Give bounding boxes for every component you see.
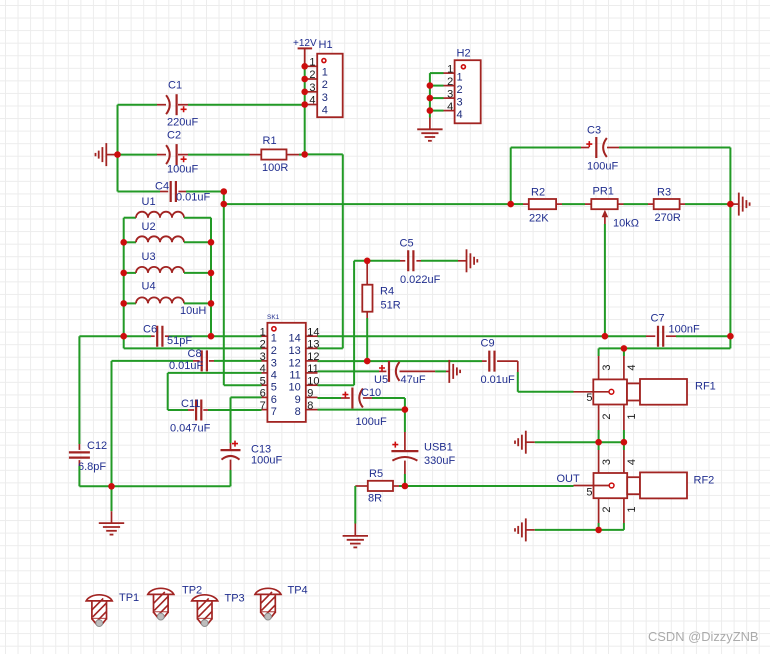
svg-text:5: 5 [271,382,277,394]
node U2 right [208,239,215,246]
wire C5 corner to SK1 pin10 [318,261,355,385]
SK1 left pin stubs [262,336,268,409]
svg-text:H2: H2 [457,48,471,60]
svg-text:TP4: TP4 [288,585,308,597]
wire C5 row [354,260,466,262]
H2 pin numbers [447,63,463,121]
power symbol +12V [293,38,317,66]
capacitor C9 0.01uF [481,338,516,387]
node RF row right junction [621,439,628,446]
capacitor C10 100uF [342,387,387,428]
svg-text:100uF: 100uF [587,161,618,173]
svg-text:4: 4 [260,363,266,375]
node C7 right junction [727,333,734,340]
wire far-left vertical lower [78,466,80,486]
wire SK1 pin4 row [168,373,262,410]
wire C2 row [118,154,250,156]
capacitor C6 51pF [143,324,192,348]
svg-text:U1: U1 [142,196,156,208]
wire PR1 wiper down [604,224,606,336]
test point TP3 [192,593,245,627]
svg-text:0.047uF: 0.047uF [170,423,211,435]
wire C3 left vertical [510,148,512,205]
svg-text:C3: C3 [587,125,601,137]
svg-text:CSDN @DizzyZNB: CSDN @DizzyZNB [648,629,758,644]
svg-text:8: 8 [295,406,301,418]
wire RF2 pin4 [623,442,625,473]
node bottom row junction [108,483,115,490]
svg-text:100nF: 100nF [669,324,700,336]
svg-text:100uF: 100uF [356,416,387,428]
svg-text:3: 3 [601,459,613,465]
wire SK1 pin9 row [318,397,350,399]
wire C13 to bottom row [230,470,232,486]
capacitor U5 47uF [374,361,426,386]
node H1 pin2 junction [301,76,308,83]
SK1 right pin stubs [306,336,318,409]
svg-text:4: 4 [457,109,463,121]
node H2 pin3 junction [427,95,434,102]
svg-text:270R: 270R [655,212,681,224]
wire far-left vertical upper [78,336,80,444]
wire left vertical C1-C4 [117,105,119,192]
node RF2 ground junction [595,527,602,534]
node R2 left junction [507,201,514,208]
svg-text:0.01uF: 0.01uF [481,374,516,386]
svg-text:0.01uF: 0.01uF [169,360,204,372]
node C4 right junction [221,188,228,195]
wire SK1 pin11 row [318,370,387,372]
svg-text:9: 9 [307,388,313,400]
svg-text:USB1: USB1 [424,442,453,454]
node RF1 pin4 top junction [621,345,628,352]
svg-text:0.022uF: 0.022uF [400,274,441,286]
wire SK1 pin8 row [318,409,405,411]
wire C7 right [666,335,731,337]
wire RF1 pin2 [598,405,600,443]
capacitor C11 0.047uF [168,398,211,435]
wire U5 right to ground [400,370,450,372]
svg-text:4: 4 [322,105,328,117]
capacitor C2 100uF [166,130,198,176]
ground right of C5 [467,249,478,272]
svg-text:C2: C2 [167,130,181,142]
svg-text:10uH: 10uH [180,305,206,317]
wire U-block right vertical [210,218,212,337]
test point TP4 [255,585,308,620]
resistor R3 270R [648,187,730,225]
svg-text:3: 3 [447,88,453,100]
wire C9 right to RF1 pin5 [497,361,573,392]
wire USB1 to R5 row [404,474,406,486]
svg-text:R3: R3 [657,187,671,199]
node C2 row left junction [114,151,121,158]
svg-text:4: 4 [271,369,277,381]
node mid-row junction [221,201,228,208]
svg-text:PR1: PR1 [593,186,614,198]
capacitor C3 100uF [511,125,731,173]
svg-text:11: 11 [289,369,300,381]
svg-text:10: 10 [289,382,301,394]
wire H2 pin stubs [430,73,455,111]
ground left of RF row [515,431,535,454]
svg-text:9: 9 [295,394,301,406]
node C6 left junction [120,333,127,340]
ground right of U5 [449,360,460,383]
wire RF2 pin5 stub [574,485,610,487]
node H1 pin3 junction [301,89,308,96]
capacitor C7 100nF [651,313,700,347]
ground left of C2 [96,143,118,166]
node PR1 wiper junction [602,333,609,340]
wire RF2 pin2 [598,498,600,530]
resistor R1 100R [250,135,305,174]
svg-text:100uF: 100uF [251,455,282,467]
wire C4 row [118,191,224,193]
inductor U1 10uH [124,196,211,218]
wire C1 row [118,104,305,106]
svg-text:100R: 100R [262,162,288,174]
svg-text:3: 3 [457,97,463,109]
svg-text:R2: R2 [531,187,545,199]
node R1 right junction [301,151,308,158]
connector H1 [317,39,343,117]
svg-text:12: 12 [289,357,301,369]
svg-text:1: 1 [626,506,638,512]
connector SK1 [267,314,306,422]
svg-text:3: 3 [322,92,328,104]
wire RF1 ground row [535,441,624,443]
svg-text:C12: C12 [87,440,107,452]
svg-text:51pF: 51pF [167,335,192,347]
svg-text:6.8pF: 6.8pF [78,461,106,473]
svg-text:6: 6 [260,388,266,400]
svg-text:2: 2 [457,84,463,96]
resistor R4 51R [362,261,400,318]
inductor U2 [124,221,211,242]
wire C10 right corner down [363,398,405,410]
connector H2 [455,48,481,124]
inductor U4 value 10uH [124,281,211,318]
svg-text:2: 2 [271,345,277,357]
node H2 pin2 junction [427,82,434,89]
svg-text:2: 2 [447,76,453,88]
svg-text:51R: 51R [381,300,401,312]
wire RF1 pin4 [623,348,625,379]
node pin8 C10 junction [402,406,409,413]
svg-text:R4: R4 [380,285,394,297]
wire RF1 pin1 [623,405,625,443]
svg-text:4: 4 [626,459,638,465]
svg-text:1: 1 [626,413,638,419]
svg-text:SK1: SK1 [267,314,280,321]
svg-text:0.01uF: 0.01uF [176,192,211,204]
svg-text:47uF: 47uF [401,374,426,386]
wire R1 junction to pin13 corner [305,154,343,348]
svg-text:C7: C7 [651,313,665,325]
svg-text:100uF: 100uF [167,164,198,176]
svg-text:4: 4 [626,364,638,370]
svg-text:330uF: 330uF [424,455,455,467]
resistor R5 8R [355,468,405,505]
node U3 left [120,270,127,277]
RF connector RF2 [594,472,715,498]
svg-text:U2: U2 [142,221,156,233]
svg-text:4: 4 [309,95,315,107]
wire H2 vertical bus [429,73,431,117]
RF connector RF1 [593,379,715,405]
wire SK1 pin14 row to C7 [318,335,656,337]
node U4 left [120,300,127,307]
node H1 pin4 junction [301,101,308,108]
svg-text:7: 7 [260,400,266,412]
svg-text:C5: C5 [400,238,414,250]
svg-text:C11: C11 [181,398,200,410]
svg-text:10kΩ: 10kΩ [613,218,639,230]
svg-text:2: 2 [601,506,613,512]
capacitor C4 0.01uF [155,181,211,204]
wire C8 row [112,361,262,486]
svg-text:U3: U3 [142,251,156,263]
capacitor C13 100uF [221,441,283,470]
svg-text:4: 4 [447,101,453,113]
wire U-block left vertical [123,218,125,349]
svg-text:TP1: TP1 [119,592,139,604]
svg-text:R5: R5 [369,468,383,480]
node H1 pin1 junction [301,63,308,70]
svg-text:7: 7 [271,406,277,418]
svg-text:RF2: RF2 [694,475,715,487]
svg-text:2: 2 [260,339,266,351]
node H2 pin4 junction [427,107,434,114]
svg-text:5: 5 [586,487,592,499]
inductor U3 [124,251,211,273]
svg-text:22K: 22K [529,213,549,225]
H1 pin numbers [309,57,328,117]
svg-text:C4: C4 [155,181,169,193]
svg-text:U4: U4 [142,281,156,293]
node R5 right junction [402,483,409,490]
potentiometer PR1 10kOhm [585,186,648,230]
RF2 pin numbers [586,459,637,513]
svg-text:1: 1 [271,333,277,345]
svg-text:OUT: OUT [557,473,581,485]
svg-text:R1: R1 [263,135,277,147]
wire RF1 pin3 [598,348,600,379]
svg-text:14: 14 [289,333,301,345]
capacitor C8 0.01uF [169,348,207,372]
svg-text:2: 2 [309,69,315,81]
node U2 left [120,239,127,246]
resistor R2 22K [511,187,585,225]
wire right vertical C3 to C7 [729,148,731,337]
wire right vertical C7 to RF row [599,336,731,348]
wire RF2 ground row [535,529,624,531]
node R3 right junction [727,201,734,208]
svg-text:1: 1 [260,326,266,338]
wire RF2 pin3 [598,442,600,473]
svg-text:2: 2 [322,79,328,91]
node C6 right junction [208,333,215,340]
wire H1 pin stubs [305,66,318,104]
svg-text:3: 3 [601,364,613,370]
node R4 top junction [364,258,371,265]
svg-text:C6: C6 [143,324,157,336]
capacitor C12 6.8pF [69,440,107,473]
svg-text:RF1: RF1 [695,381,716,393]
svg-text:1: 1 [457,72,463,84]
wire mid row [224,203,511,205]
svg-text:3: 3 [309,82,315,94]
wire C11 to SK1 pin7 [208,409,262,411]
ground at bottom row [99,486,124,534]
SK1 pin numbers [260,326,320,418]
wire H1 vertical bus [304,66,306,154]
wire SK1 pin13 row [318,347,343,349]
svg-text:2: 2 [601,413,613,419]
RF1 pin numbers [586,364,637,419]
svg-text:1: 1 [322,66,328,78]
svg-text:11: 11 [307,363,318,375]
wire SK1 pin12 row to C9 [318,360,487,362]
svg-text:C9: C9 [481,338,495,350]
svg-text:6: 6 [271,394,277,406]
wire vertical C4 to SK1 pin5 [224,192,262,386]
node pin12 R4 junction [364,358,371,365]
svg-text:8R: 8R [368,493,382,505]
capacitor C5 0.022uF [400,238,441,287]
svg-text:TP3: TP3 [225,593,245,605]
ground below H2 [417,118,442,141]
node U3 right [208,270,215,277]
wire R4 bottom to pin12 row [366,318,368,361]
wire C6 row [79,335,261,337]
svg-text:5: 5 [260,375,266,387]
wire RF2 pin1 [623,498,625,530]
svg-text:220uF: 220uF [167,117,198,129]
wire SK1 pin6 row [231,397,262,443]
svg-text:C8: C8 [188,348,202,360]
svg-text:3: 3 [271,357,277,369]
svg-text:1: 1 [447,63,453,75]
wire U-block left vertical to SK1 pin2 [124,347,262,349]
svg-text:1: 1 [309,57,315,69]
svg-text:+12V: +12V [293,38,317,49]
capacitor USB1 330uF [391,410,455,474]
wire R5 row to RF2 pin5 (OUT) [405,473,580,486]
svg-text:3: 3 [260,351,266,363]
svg-text:13: 13 [289,345,301,357]
wire RF1 pin5 stub [574,391,610,393]
capacitor C1 220uF [166,80,198,129]
svg-text:8: 8 [307,400,313,412]
svg-text:H1: H1 [319,39,333,51]
node U4 right [208,300,215,307]
svg-text:U5: U5 [374,374,388,386]
wire bottom ground row [79,485,230,487]
node RF row left junction [595,439,602,446]
ground below R5 left [343,486,368,547]
svg-text:C1: C1 [168,80,182,92]
ground right of R3 [730,193,749,216]
test point TP1 [86,592,139,626]
ground left of RF2 bottom row [515,518,535,541]
test point TP2 [148,585,202,620]
svg-text:5: 5 [586,392,592,404]
